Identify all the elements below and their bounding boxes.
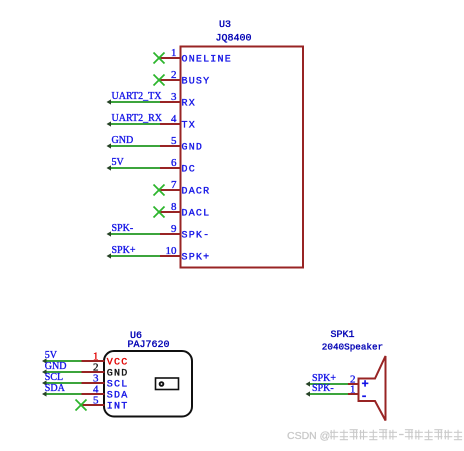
svg-text:2040Speaker: 2040Speaker <box>322 342 383 353</box>
svg-text:UART2_TX: UART2_TX <box>112 91 163 102</box>
svg-text:INT: INT <box>107 402 129 413</box>
svg-text:2: 2 <box>171 69 177 81</box>
svg-text:8: 8 <box>171 201 177 213</box>
svg-text:SDA: SDA <box>45 383 66 394</box>
svg-text:10: 10 <box>166 245 178 257</box>
svg-text:GND: GND <box>107 369 129 380</box>
svg-text:5V: 5V <box>112 157 125 168</box>
svg-text:SPK-: SPK- <box>112 223 134 234</box>
svg-text:GND: GND <box>182 143 204 154</box>
svg-text:GND: GND <box>45 361 67 372</box>
svg-text:1: 1 <box>350 384 356 396</box>
svg-text:DACL: DACL <box>182 209 211 220</box>
svg-text:5: 5 <box>171 135 177 147</box>
svg-text:SPK-: SPK- <box>182 231 211 242</box>
svg-text:SPK-: SPK- <box>312 383 334 394</box>
svg-text:3: 3 <box>171 91 177 103</box>
svg-text:SCL: SCL <box>107 380 129 391</box>
svg-text:CSDN @: CSDN @ <box>287 430 330 442</box>
svg-text:U3: U3 <box>219 20 231 31</box>
svg-text:7: 7 <box>171 179 177 191</box>
svg-text:SPK+: SPK+ <box>112 245 136 256</box>
svg-text:SPK+: SPK+ <box>182 253 211 264</box>
svg-text:PAJ7620: PAJ7620 <box>128 340 170 351</box>
svg-text:RX: RX <box>182 99 196 110</box>
svg-text:SCL: SCL <box>45 372 63 383</box>
svg-text:-: - <box>361 390 368 404</box>
svg-text:DACR: DACR <box>182 187 211 198</box>
svg-text:4: 4 <box>171 113 177 125</box>
svg-text:JQ8400: JQ8400 <box>216 34 252 45</box>
svg-text:6: 6 <box>171 157 177 169</box>
svg-text:UART2_RX: UART2_RX <box>112 113 163 124</box>
svg-text:SPK1: SPK1 <box>331 330 355 341</box>
svg-text:5V: 5V <box>45 350 58 361</box>
svg-text:BUSY: BUSY <box>182 77 211 88</box>
svg-text:VCC: VCC <box>107 358 129 369</box>
svg-text:5: 5 <box>93 395 99 407</box>
svg-text:TX: TX <box>182 121 196 132</box>
svg-text:ONELINE: ONELINE <box>182 55 232 66</box>
svg-text:1: 1 <box>171 47 177 59</box>
svg-text:DC: DC <box>182 165 196 176</box>
svg-text:SDA: SDA <box>107 391 129 402</box>
svg-text:9: 9 <box>171 223 177 235</box>
svg-text:GND: GND <box>112 135 134 146</box>
